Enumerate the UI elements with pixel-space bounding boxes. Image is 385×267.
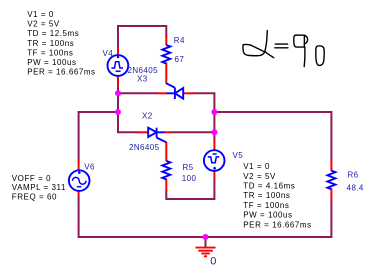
svg-text:TR = 100ns: TR = 100ns — [27, 39, 74, 48]
svg-text:PER = 16.667ms: PER = 16.667ms — [27, 67, 95, 76]
svg-text:R4: R4 — [174, 36, 185, 45]
svg-text:V5: V5 — [233, 151, 244, 160]
svg-text:X2: X2 — [142, 112, 153, 121]
svg-text:R6: R6 — [348, 170, 359, 179]
svg-text:R5: R5 — [183, 163, 194, 172]
svg-text:VOFF = 0: VOFF = 0 — [12, 174, 51, 183]
svg-text:V4: V4 — [103, 49, 114, 58]
svg-text:VAMPL = 311: VAMPL = 311 — [12, 183, 66, 192]
svg-text:100: 100 — [182, 174, 197, 183]
svg-text:V2 = 5V: V2 = 5V — [27, 20, 60, 29]
svg-text:V1 = 0: V1 = 0 — [243, 162, 270, 171]
svg-text:FREQ = 60: FREQ = 60 — [12, 192, 57, 201]
svg-text:TF = 100ns: TF = 100ns — [27, 48, 73, 57]
svg-text:V6: V6 — [84, 163, 95, 172]
svg-text:V2 = 5V: V2 = 5V — [243, 172, 276, 181]
svg-text:2N6405: 2N6405 — [129, 143, 160, 152]
svg-text:48.4: 48.4 — [347, 184, 364, 193]
svg-text:TD = 4.16ms: TD = 4.16ms — [243, 182, 295, 191]
svg-text:67: 67 — [175, 55, 185, 64]
svg-text:V1 = 0: V1 = 0 — [27, 10, 54, 19]
svg-text:0: 0 — [210, 255, 217, 267]
svg-text:PW = 100us: PW = 100us — [27, 58, 76, 67]
svg-text:TD = 12.5ms: TD = 12.5ms — [27, 29, 79, 38]
svg-text:TF = 100ns: TF = 100ns — [243, 201, 289, 210]
svg-text:X3: X3 — [137, 75, 148, 84]
svg-text:TR = 100ns: TR = 100ns — [243, 191, 290, 200]
svg-text:PER = 16.667ms: PER = 16.667ms — [243, 220, 311, 229]
svg-text:PW = 100us: PW = 100us — [243, 211, 292, 220]
